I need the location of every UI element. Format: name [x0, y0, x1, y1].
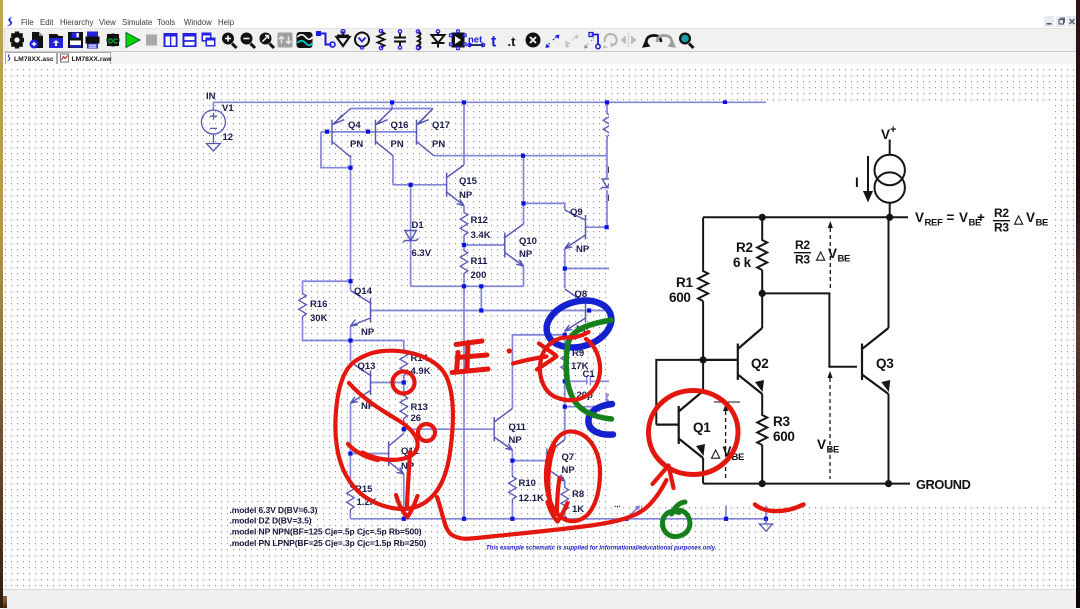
wire Q10 collector riser: [523, 156, 525, 224]
svg-text:12.1K: 12.1K: [519, 493, 544, 504]
svg-text:Q11: Q11: [509, 422, 527, 433]
wire R11 bottom: [463, 277, 465, 286]
svg-text:NP: NP: [562, 465, 576, 476]
move gray: [566, 35, 579, 48]
wire Q12 collector riser: [403, 429, 405, 433]
svg-text:3.4K: 3.4K: [471, 230, 491, 241]
wire R1 bottom: [702, 301, 704, 360]
wire Q1 emitter: [702, 458, 704, 484]
resistor R9: [561, 350, 569, 378]
wire cs to rail: [889, 203, 891, 218]
open: [49, 34, 63, 48]
halt: [146, 35, 157, 46]
svg-text:V: V: [1026, 210, 1035, 225]
measure arrow dVBE Q1: [714, 402, 740, 479]
svg-text:R3: R3: [795, 253, 810, 267]
zener diode D2: [601, 179, 614, 189]
wire zener tap drop: [480, 286, 482, 310]
wire R11 long drop: [463, 286, 465, 519]
run: [126, 33, 140, 48]
svg-text:R16: R16: [310, 299, 327, 310]
svg-text:Q3: Q3: [876, 356, 894, 371]
wire Q10 emitter: [523, 266, 525, 286]
resistor R14: [400, 351, 408, 379]
svg-text:V1: V1: [222, 103, 234, 114]
pen red circle around R8: [546, 431, 600, 521]
wire Q13 emitter drop: [350, 403, 352, 454]
svg-text:1K: 1K: [572, 504, 584, 515]
net icon: [468, 35, 485, 47]
wire x607 column: [606, 102, 608, 227]
svg-text:+: +: [977, 210, 985, 225]
wire Q15 emitter to R12: [463, 206, 465, 211]
wire Q8 column: [564, 269, 566, 440]
wire Q7 collector riser: [564, 433, 566, 440]
inductor icon: [416, 30, 420, 50]
find: [679, 33, 694, 49]
wire Q16 collector drop: [392, 156, 394, 185]
wire R16 bottom: [303, 320, 351, 341]
wire R16 top: [303, 281, 351, 292]
drag icon: [584, 33, 600, 49]
transistor Q10: [505, 224, 524, 266]
svg-text:600: 600: [669, 290, 691, 305]
cascade: [202, 33, 216, 47]
svg-text:R2: R2: [795, 238, 810, 252]
pen red arrowhead right: [537, 344, 557, 370]
measure arrow R2R3 dVbe: [828, 221, 833, 290]
svg-text:PN: PN: [391, 139, 404, 150]
resistor R3: [757, 413, 767, 445]
svg-text:Q10: Q10: [519, 236, 537, 247]
svg-text:DC: DC: [108, 39, 118, 46]
app icon: [5, 16, 15, 27]
zoom full: [260, 33, 275, 49]
svg-text:R2: R2: [736, 240, 753, 255]
component icon: [450, 30, 467, 50]
transistor Q9 mirrored: [565, 210, 586, 249]
measure arrow VBE: [827, 371, 832, 479]
svg-text:R1: R1: [676, 275, 693, 290]
wire Q10 base: [464, 244, 505, 246]
svg-text:NP: NP: [459, 190, 473, 201]
svg-text:600: 600: [773, 429, 795, 444]
node dots: [700, 214, 894, 488]
new schematic: [30, 32, 44, 49]
svg-text:200: 200: [471, 270, 487, 281]
wire base rail Q4 Q16 Q17: [321, 131, 417, 133]
svg-text:R12: R12: [471, 215, 488, 226]
wire IN top rail: [213, 101, 766, 103]
svg-text:D1: D1: [412, 220, 425, 231]
transistor Q8 mirrored: [565, 289, 586, 331]
svg-text:Q16: Q16: [391, 120, 409, 131]
ground of V1: [206, 144, 220, 152]
wire Q15 collector: [463, 102, 465, 165]
svg-text:V: V: [881, 127, 890, 142]
resistor R15: [347, 485, 355, 513]
resistor R1: [698, 269, 708, 301]
pen red smile: [755, 505, 804, 512]
wire Q11 emitter node: [511, 450, 513, 461]
svg-text:△: △: [710, 446, 721, 460]
svg-text:30K: 30K: [310, 313, 328, 324]
wire R10: [511, 461, 513, 519]
wire Q13 collector riser: [350, 341, 352, 362]
svg-text:PN: PN: [350, 139, 363, 150]
svg-text:△: △: [1013, 212, 1024, 226]
wire ground rail: [350, 518, 766, 520]
pen red circle around R9: [540, 332, 600, 400]
transistor Q1: [656, 391, 705, 458]
svg-text:.t: .t: [508, 34, 517, 49]
wire bottom zener rail: [411, 285, 524, 287]
wire Q17 collector rail: [434, 155, 607, 157]
svg-text:.model 6.3V D(BV=6.3): .model 6.3V D(BV=6.3): [230, 505, 318, 515]
resistor R10: [509, 475, 517, 503]
svg-text:I: I: [855, 175, 858, 190]
diode icon: [432, 30, 445, 48]
transistor Q3: [862, 328, 890, 394]
pen red tail to Q1: [437, 480, 667, 539]
pen red dash: [513, 357, 547, 364]
wire output stub right: [765, 506, 767, 519]
svg-text:V: V: [959, 210, 968, 225]
wire Q15 base: [393, 184, 447, 186]
ground mode: [337, 30, 350, 47]
wire Q9 emitter: [564, 249, 566, 269]
transistor Q4: [332, 109, 351, 158]
pen blue hook: [588, 404, 613, 435]
gear (control panel): [10, 32, 24, 49]
zener diode D1: [403, 231, 418, 243]
svg-text:V: V: [828, 246, 837, 261]
svg-text:R3: R3: [994, 221, 1009, 235]
wire R15 top: [349, 454, 351, 486]
pen red dot: [507, 348, 512, 353]
wire D1 vertical: [410, 185, 412, 286]
wire output stub left: [626, 507, 639, 519]
wire R2 bottom node: [761, 270, 763, 293]
svg-text:+: +: [890, 124, 896, 136]
svg-text:BE: BE: [1036, 218, 1049, 229]
svg-text:PN: PN: [432, 139, 445, 150]
pen red char zheng: [452, 341, 488, 373]
move icon: [546, 35, 560, 49]
svg-text:Q15: Q15: [459, 176, 478, 187]
svg-text:V: V: [817, 437, 826, 452]
ground symbol at output rail: [759, 519, 772, 531]
svg-text:Q13: Q13: [358, 361, 376, 372]
wire tick fragment: [641, 505, 643, 513]
svg-text:R10: R10: [519, 478, 536, 489]
svg-text:NP: NP: [509, 435, 523, 446]
svg-text:R3: R3: [773, 414, 790, 429]
resistor R11: [460, 249, 468, 277]
wire Q11 base rail: [404, 428, 494, 430]
wire Q4 collector: [350, 155, 352, 290]
resistor R19 top: [603, 112, 611, 140]
svg-text:Q9: Q9: [570, 207, 583, 218]
control panel hammer: [107, 34, 120, 47]
pen red blob inner stroke: [348, 383, 418, 460]
svg-text:Q1: Q1: [693, 420, 711, 435]
wire Q12 emitter drop: [403, 474, 405, 519]
wire Q9 collector link: [524, 203, 565, 210]
wire Q3 emitter: [888, 394, 890, 484]
gripper: [4, 31, 6, 49]
wire Q12 base: [351, 453, 389, 455]
svg-text:6.3V: 6.3V: [412, 248, 432, 259]
wire V1 top: [212, 102, 214, 110]
svg-text:LM78XX.asc: LM78XX.asc: [14, 56, 54, 63]
wire output stub mid: [725, 506, 727, 519]
svg-text:NP: NP: [361, 327, 375, 338]
transistor Q13: [351, 362, 371, 403]
svg-text:6 k: 6 k: [733, 255, 752, 270]
wire Q11 collector riser: [512, 335, 564, 409]
pen red arrowhead to Q1: [653, 466, 674, 489]
resistor R13: [400, 394, 408, 422]
wire R2 to Q3 base: [762, 293, 857, 366]
waveform: [297, 32, 313, 48]
svg-text:R2: R2: [994, 206, 1009, 220]
wire Q7 emitter to R8: [564, 481, 566, 519]
transistor Q6 sliver at overlay edge: [607, 392, 613, 403]
pan gray: [278, 33, 293, 48]
transistor Q7: [547, 440, 565, 482]
zoom in: [222, 33, 237, 49]
cut icon: [526, 33, 541, 48]
svg-text:C1: C1: [583, 369, 596, 380]
svg-text:Q7: Q7: [562, 452, 575, 463]
wire Q2 emitter to R3: [761, 394, 763, 413]
svg-text:NP: NP: [576, 244, 590, 255]
wire R9 C1 node: [565, 380, 612, 382]
wire Q9 emitter stub right: [565, 268, 610, 270]
svg-text:12: 12: [223, 132, 234, 143]
resistor R2: [757, 238, 767, 270]
transistor Q16: [376, 109, 394, 156]
svg-text:Q14: Q14: [354, 286, 373, 297]
svg-text:This example schematic is supp: This example schematic is supplied for i…: [486, 546, 717, 552]
wire ground rail: [703, 483, 910, 485]
wire R3 bottom: [761, 445, 763, 484]
wire mode: [316, 31, 335, 47]
transistor Q15: [447, 165, 464, 206]
arrow current I: [867, 156, 869, 194]
horizontal panes: [183, 33, 197, 47]
capacitor C1 plates: [587, 376, 591, 386]
node squares: [390, 100, 394, 104]
transistor Q2: [703, 328, 764, 394]
resistor R16: [299, 292, 307, 320]
wire R13 bottom node: [403, 422, 405, 429]
wire R15 bottom: [349, 513, 351, 519]
svg-text:△: △: [815, 248, 826, 262]
resistor R12: [460, 211, 468, 239]
wire Q2 collector: [761, 293, 763, 328]
svg-text:=: =: [947, 210, 955, 225]
pen blue ellipse around Q8: [541, 293, 617, 354]
print: [86, 32, 100, 49]
svg-text:IN: IN: [206, 91, 216, 102]
wire Q14 emitter drop: [350, 326, 352, 341]
wire top rail drop hidden: [724, 102, 726, 104]
svg-text:Q17: Q17: [432, 120, 450, 131]
zoom out: [241, 33, 256, 49]
overlay image background: [609, 104, 1053, 506]
save: [68, 32, 83, 48]
pen red circle around Q1: [649, 391, 739, 475]
svg-text:.model PN LPNP(BF=25 Cje=.3p C: .model PN LPNP(BF=25 Cje=.3p Cjc=1.5p Rb…: [230, 538, 427, 548]
wire feedback loop: [321, 132, 351, 168]
pen red arrow in R8: [548, 478, 568, 522]
resistor R8: [561, 486, 569, 514]
svg-text:.model DZ D(BV=3.5): .model DZ D(BV=3.5): [230, 516, 312, 526]
svg-text:REF: REF: [925, 218, 944, 229]
wire R12-R11 junction: [463, 239, 465, 249]
svg-text:R13: R13: [411, 402, 428, 413]
svg-text:t: t: [491, 34, 497, 51]
vertical panes: [164, 33, 178, 47]
wire Q3 collector: [888, 217, 890, 328]
svg-text:R8: R8: [572, 489, 584, 500]
wire R14 feed: [351, 341, 404, 352]
pen green curve: [566, 320, 611, 419]
wire Q13 base: [371, 382, 404, 384]
transistor Q14 mirrored: [351, 291, 371, 327]
voltage source V1: [201, 110, 225, 144]
svg-text:BE: BE: [827, 445, 840, 456]
pen green loop glyph: [662, 502, 689, 537]
mirror gray: [621, 33, 637, 48]
wire R14-R13 node: [403, 379, 405, 394]
wire R1 top: [702, 217, 704, 269]
transistor Q11: [494, 409, 512, 451]
pen red circle node2: [418, 424, 435, 441]
wire V+ feed: [889, 140, 891, 156]
transistor Q17: [417, 109, 434, 156]
cap icon: [394, 30, 406, 49]
wire vref rail: [703, 216, 908, 218]
transistor Q12: [389, 434, 404, 475]
pen red blob around Q12 Q13: [335, 351, 452, 509]
resistor icon: [378, 29, 385, 49]
current source I1: [875, 155, 905, 185]
pen red arrow down: [396, 452, 418, 517]
svg-text:BE: BE: [838, 254, 851, 265]
wire Q1 collector: [702, 360, 704, 391]
wire long base rail Q14-Q8: [371, 310, 611, 312]
wire Q9 base: [586, 226, 608, 228]
wire Q7 base: [512, 460, 547, 462]
svg-text:V: V: [915, 210, 924, 225]
label mode: [355, 33, 369, 50]
svg-text:Q2: Q2: [751, 356, 768, 371]
svg-text:26: 26: [411, 413, 422, 424]
wire emitter rail: [351, 102, 433, 108]
wire R2 top: [761, 217, 763, 238]
svg-text:GROUND: GROUND: [916, 477, 971, 492]
redo: [657, 35, 676, 47]
svg-text:LM78XX.raw: LM78XX.raw: [72, 56, 113, 63]
svg-text:Q4: Q4: [348, 120, 361, 131]
rotate gray: [603, 34, 617, 48]
pen red circle node1: [393, 372, 415, 394]
svg-text:.model NP NPN(BF=125 Cje=.5p C: .model NP NPN(BF=125 Cje=.5p Cjc=.5p Rb=…: [230, 527, 422, 537]
svg-text:R11: R11: [471, 256, 489, 267]
svg-text:NP: NP: [519, 249, 533, 260]
wire C1 lower stub: [565, 406, 610, 408]
wire Q1 base loop: [656, 360, 703, 425]
undo: [642, 35, 661, 47]
